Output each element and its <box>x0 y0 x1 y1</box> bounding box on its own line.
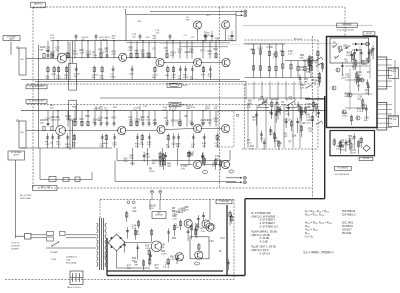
svg-text:4.7K: 4.7K <box>163 109 168 111</box>
svg-text:2.2K: 2.2K <box>159 166 164 168</box>
svg-text:2.2K: 2.2K <box>285 113 290 115</box>
svg-text:4.7K: 4.7K <box>146 56 151 58</box>
svg-text:LAMP: LAMP <box>9 38 15 41</box>
svg-text:S-E-2(3)DE-901: S-E-2(3)DE-901 <box>335 174 351 176</box>
svg-text:2.2K: 2.2K <box>80 52 85 54</box>
svg-text:33P: 33P <box>178 78 182 80</box>
svg-text:TAPE EQ: TAPE EQ <box>33 2 43 5</box>
svg-text:4.7K: 4.7K <box>306 122 311 124</box>
svg-text:3.3K: 3.3K <box>292 136 297 138</box>
svg-text:33P: 33P <box>134 265 138 267</box>
svg-text:4.7K: 4.7K <box>181 168 186 170</box>
svg-text:33P: 33P <box>135 122 139 124</box>
svg-text:68K: 68K <box>92 77 96 79</box>
svg-text:100VA 117V: 100VA 117V <box>66 256 77 259</box>
svg-text:R₂₀₁ = R₂₀₂, R₂₀₃: R₂₀₁ = R₂₀₂, R₂₀₃ <box>305 213 324 217</box>
svg-text:33P: 33P <box>74 76 78 78</box>
svg-text:4.7K: 4.7K <box>260 99 265 101</box>
svg-text:X₁ = X₂: X₁ = X₂ <box>305 235 313 239</box>
svg-text:4.7K: 4.7K <box>357 111 362 113</box>
svg-text:100/10: 100/10 <box>302 60 310 62</box>
svg-text:(SW-2) 2. 20 dB: (SW-2) 2. 20 dB <box>252 233 271 237</box>
svg-text:2.2K: 2.2K <box>123 161 128 163</box>
svg-text:L CH LEVEL ADJ: L CH LEVEL ADJ <box>29 85 44 88</box>
svg-text:KV 8040: KV 8040 <box>343 24 353 26</box>
svg-text:注記 十本線路入 (0Ӻ配線2心): 注記 十本線路入 (0Ӻ配線2心) <box>303 250 334 254</box>
svg-text:4.7K: 4.7K <box>306 117 311 119</box>
svg-text:4.7K: 4.7K <box>165 120 170 122</box>
svg-text:33P: 33P <box>133 110 137 112</box>
svg-text:25 0220: 25 0220 <box>342 231 352 235</box>
svg-text:(SW-3) 2. DF 5: (SW-3) 2. DF 5 <box>252 248 270 252</box>
svg-text:10/16: 10/16 <box>348 138 354 140</box>
svg-text:68K: 68K <box>364 120 368 122</box>
svg-text:10/16: 10/16 <box>340 149 346 151</box>
svg-text:33P: 33P <box>284 136 288 138</box>
svg-text:DISPLAY: DISPLAY <box>155 214 164 217</box>
svg-text:1K: 1K <box>219 251 222 253</box>
svg-text:68K: 68K <box>152 163 156 165</box>
svg-text:R41: R41 <box>315 62 320 64</box>
svg-text:120/220V: 120/220V <box>11 246 21 248</box>
svg-text:2.2K: 2.2K <box>171 77 176 79</box>
svg-text:DK 753: DK 753 <box>363 158 369 160</box>
svg-text:10/16: 10/16 <box>178 212 184 214</box>
svg-text:10/16: 10/16 <box>183 77 189 79</box>
svg-text:68K: 68K <box>304 82 308 84</box>
svg-text:250 45B-03: 250 45B-03 <box>342 209 356 213</box>
svg-text:33P: 33P <box>46 78 50 80</box>
svg-text:R₄₀₁: R₄₀₁ <box>305 224 310 228</box>
svg-text:4.7K: 4.7K <box>64 78 69 80</box>
svg-text:E20-240VA: E20-240VA <box>66 262 77 265</box>
svg-text:4.7K: 4.7K <box>111 54 116 56</box>
svg-text:10/16: 10/16 <box>228 38 234 40</box>
svg-text:2.2K: 2.2K <box>307 66 312 68</box>
svg-text:5. SYSTEM 1+2: 5. SYSTEM 1+2 <box>260 225 279 229</box>
svg-text:10/16: 10/16 <box>72 54 78 56</box>
svg-text:1/50: 1/50 <box>344 61 348 63</box>
svg-text:4.7K: 4.7K <box>50 37 55 39</box>
svg-text:25 0557A: 25 0557A <box>342 224 353 228</box>
svg-text:10K: 10K <box>280 51 285 53</box>
svg-text:C121: C121 <box>165 263 171 265</box>
svg-text:2.2K: 2.2K <box>201 231 206 233</box>
svg-text:R SPK: R SPK <box>390 119 397 121</box>
svg-text:10/16: 10/16 <box>342 115 348 117</box>
svg-text:10/16: 10/16 <box>86 54 92 56</box>
svg-text:33P: 33P <box>111 38 115 40</box>
svg-text:2.2K: 2.2K <box>208 76 213 78</box>
svg-text:2.2K: 2.2K <box>99 78 104 80</box>
svg-text:4. 0 dB: 4. 0 dB <box>260 240 268 244</box>
svg-text:R33: R33 <box>277 143 282 145</box>
svg-text:R33: R33 <box>172 238 177 240</box>
svg-text:C7EC - EA: C7EC - EA <box>39 186 50 189</box>
svg-text:68K: 68K <box>127 268 131 270</box>
svg-text:4.7K: 4.7K <box>300 88 305 90</box>
svg-text:2.2K: 2.2K <box>139 144 144 146</box>
svg-text:4.7K: 4.7K <box>273 57 278 59</box>
svg-text:2.2K: 2.2K <box>135 234 140 236</box>
svg-text:10/16: 10/16 <box>339 144 345 146</box>
svg-text:250 B17: 250 B17 <box>342 227 352 231</box>
svg-text:R19: R19 <box>112 117 117 119</box>
svg-text:2.2K: 2.2K <box>288 54 293 56</box>
svg-text:A-130: A-130 <box>366 32 372 35</box>
svg-text:68K: 68K <box>40 50 44 52</box>
svg-text:SWITCHED: SWITCHED <box>20 198 32 200</box>
svg-text:2.2K: 2.2K <box>129 158 134 160</box>
svg-text:2.2K: 2.2K <box>345 77 350 79</box>
svg-text:10/16: 10/16 <box>145 248 151 250</box>
svg-text:2.2K: 2.2K <box>56 120 61 122</box>
svg-text:10/16: 10/16 <box>110 76 116 78</box>
svg-text:R₄₀₂ = R₄₀₃: R₄₀₂ = R₄₀₃ <box>305 227 318 231</box>
svg-text:D501: D501 <box>103 256 108 258</box>
svg-text:2.2K: 2.2K <box>189 155 194 157</box>
svg-text:68K: 68K <box>300 58 304 60</box>
svg-text:AC OUTLET: AC OUTLET <box>20 194 32 197</box>
svg-text:33P: 33P <box>207 108 211 110</box>
svg-text:68K: 68K <box>98 120 102 122</box>
svg-text:33P: 33P <box>346 144 350 146</box>
svg-text:1.6A: 1.6A <box>66 259 71 262</box>
svg-text:10K: 10K <box>302 123 307 125</box>
svg-text:Rg/VA SMRA 1. 50 dB: Rg/VA SMRA 1. 50 dB <box>252 229 277 233</box>
svg-text:Rg,SF 10VT 1. DF 50: Rg,SF 10VT 1. DF 50 <box>252 245 277 249</box>
svg-text:4. SYSTEM 2: 4. SYSTEM 2 <box>260 221 276 225</box>
svg-text:R62: R62 <box>86 116 91 118</box>
svg-text:ALPS: ALPS <box>14 153 20 156</box>
svg-text:3. SYSTEM 1: 3. SYSTEM 1 <box>260 218 276 222</box>
svg-text:0 10 20 30 40 dB: 0 10 20 30 40 dB <box>337 30 354 32</box>
svg-text:33P: 33P <box>72 145 76 147</box>
svg-text:3. 10 dB: 3. 10 dB <box>260 236 270 240</box>
svg-text:2.2K: 2.2K <box>189 52 194 54</box>
svg-text:POWER: POWER <box>50 252 58 254</box>
svg-text:2.2K: 2.2K <box>93 55 98 57</box>
svg-text:R₅₀₁: R₅₀₁ <box>305 231 310 235</box>
svg-text:2.2K: 2.2K <box>354 82 359 84</box>
svg-text:50/60Hz: 50/60Hz <box>11 249 19 251</box>
svg-text:R77: R77 <box>201 51 206 53</box>
svg-text:(SW-1) 2. W PHONE: (SW-1) 2. W PHONE <box>252 214 276 218</box>
svg-text:33P: 33P <box>104 110 108 112</box>
svg-text:10/16: 10/16 <box>161 253 167 255</box>
svg-text:4.7K: 4.7K <box>113 145 118 147</box>
svg-text:10/16: 10/16 <box>299 70 305 72</box>
svg-text:R19: R19 <box>130 164 135 166</box>
svg-text:L SPK: L SPK <box>391 71 397 73</box>
svg-text:68K: 68K <box>152 77 156 79</box>
svg-text:2.2K: 2.2K <box>179 104 184 106</box>
svg-text:4.7K: 4.7K <box>147 144 152 146</box>
svg-text:2.2K: 2.2K <box>174 227 179 229</box>
svg-text:2.2K: 2.2K <box>288 99 293 101</box>
svg-text:4.7K: 4.7K <box>352 153 357 155</box>
svg-text:68K: 68K <box>306 72 310 74</box>
svg-text:4.7K: 4.7K <box>170 259 175 261</box>
svg-text:DK SEMKO: DK SEMKO <box>338 167 349 169</box>
svg-text:10/16: 10/16 <box>56 78 62 80</box>
svg-text:25C 1451: 25C 1451 <box>342 220 354 224</box>
svg-text:10/16: 10/16 <box>194 227 200 229</box>
svg-text:10/16: 10/16 <box>149 171 155 173</box>
svg-text:250 45B-LC: 250 45B-LC <box>342 213 356 217</box>
svg-text:R₃₀₁ = R₃₀₂, R₃₀₃ = R₃₀₄: R₃₀₁ = R₃₀₂, R₃₀₃ = R₃₀₄ <box>305 220 332 224</box>
svg-text:3.3K: 3.3K <box>209 241 214 243</box>
svg-text:100/10: 100/10 <box>283 120 291 122</box>
svg-text:2.2K: 2.2K <box>211 228 216 230</box>
svg-text:C14: C14 <box>220 238 225 240</box>
svg-text:68K: 68K <box>141 53 145 55</box>
svg-text:68K: 68K <box>176 146 180 148</box>
svg-text:S.23F: S.23F <box>51 259 57 261</box>
svg-text:4.7/50: 4.7/50 <box>266 47 273 49</box>
svg-text:2.2K: 2.2K <box>128 50 133 52</box>
svg-text:33P: 33P <box>269 134 273 136</box>
svg-text:R CH LEVEL ADJ: R CH LEVEL ADJ <box>29 100 45 103</box>
svg-text:10/16: 10/16 <box>72 122 78 124</box>
svg-text:.022: .022 <box>132 211 137 213</box>
svg-text:EQ-1(L): EQ-1(L) <box>294 38 302 40</box>
svg-text:3. DF 0.5: 3. DF 0.5 <box>260 251 271 255</box>
svg-text:R₁ = R₂₁₀, R₂₁₁ = R₂₁₂: R₁ = R₂₁₀, R₂₁₁ = R₂₁₂ <box>305 209 329 213</box>
svg-text:10/16: 10/16 <box>190 107 196 109</box>
svg-text:SELECT PLUG: SELECT PLUG <box>67 287 81 289</box>
svg-text:C121: C121 <box>257 48 263 50</box>
svg-text:TH-01: TH-01 <box>182 85 188 87</box>
svg-text:33P: 33P <box>167 166 171 168</box>
svg-text:2.2K: 2.2K <box>132 228 137 230</box>
svg-text:2.2K: 2.2K <box>172 218 177 220</box>
svg-text:R41: R41 <box>214 49 219 51</box>
svg-text:UT 117V: UT 117V <box>11 243 20 245</box>
svg-text:B. SYSTEM OFF: B. SYSTEM OFF <box>252 211 272 215</box>
svg-text:68K: 68K <box>155 268 159 270</box>
svg-text:1 REG-BA: 1 REG-BA <box>219 200 229 203</box>
svg-text:2.2K: 2.2K <box>56 144 61 146</box>
svg-text:68K: 68K <box>153 38 157 40</box>
